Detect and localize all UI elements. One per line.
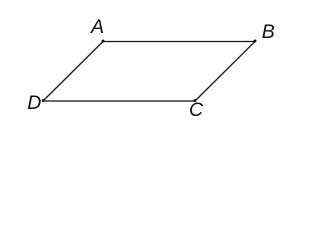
node C xyxy=(194,99,197,102)
svg-text:A: A xyxy=(90,16,104,38)
node D xyxy=(42,99,45,102)
svg-text:C: C xyxy=(189,99,204,121)
node B xyxy=(254,40,257,43)
wire side DA xyxy=(43,42,103,102)
svg-text:B: B xyxy=(262,21,275,43)
wire side BC xyxy=(195,42,255,102)
wire side AB xyxy=(103,41,255,43)
node A xyxy=(102,40,105,43)
svg-text:D: D xyxy=(27,92,41,114)
wire side CD xyxy=(43,100,195,102)
